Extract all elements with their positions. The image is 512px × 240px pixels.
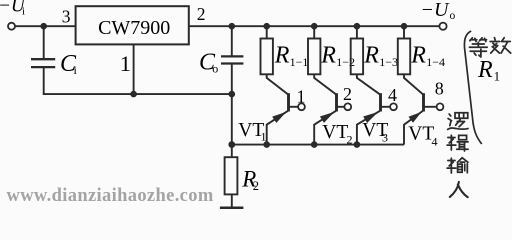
label VT1 <box>238 120 266 144</box>
capacitor Co <box>221 56 243 63</box>
label R1-1 <box>274 42 309 69</box>
label -Ui <box>0 0 26 17</box>
svg-text:1−1: 1−1 <box>290 55 309 69</box>
node VT2 emitter junction <box>311 141 318 148</box>
wire base VT2 <box>337 106 345 108</box>
wire pin 2 / top output rail <box>189 25 440 27</box>
label dengxiao (equivalent) <box>469 38 487 57</box>
arrow emitter VT4 <box>409 112 422 123</box>
label R1 equivalent <box>477 57 500 84</box>
output terminal -U_o <box>439 23 446 30</box>
wire R1-2 top <box>313 26 315 38</box>
wire input to regulator pin 3 <box>15 25 76 27</box>
transistor VT4 base bar <box>422 93 425 111</box>
wire base VT3 <box>381 106 391 108</box>
svg-text:3: 3 <box>62 7 71 27</box>
logic input terminal 1 <box>298 103 305 110</box>
label Ci <box>60 51 78 77</box>
arrow emitter VT2 <box>320 112 334 123</box>
svg-text:R: R <box>363 42 379 68</box>
wire collector VT3 <box>357 74 381 95</box>
svg-text:CW7900: CW7900 <box>98 17 170 39</box>
node R2/emitter rail junction <box>229 141 236 148</box>
svg-text:VT: VT <box>322 122 348 143</box>
transistor VT3 base bar <box>379 93 382 111</box>
arrow emitter VT1 <box>272 112 286 123</box>
wire emitter VT1 <box>267 111 288 145</box>
svg-text:1: 1 <box>261 130 267 144</box>
regulator U1 CW7900 <box>76 6 189 44</box>
node VT3 emitter junction <box>354 141 361 148</box>
svg-text:1: 1 <box>494 69 501 84</box>
logic input terminal 2 <box>344 103 351 110</box>
label R2 <box>241 167 259 193</box>
node R1-1 top junction <box>263 23 270 30</box>
node Ci top junction <box>40 23 47 30</box>
svg-text:3: 3 <box>382 131 388 145</box>
node R1-2 top junction <box>311 23 318 30</box>
wire emitter VT2 <box>314 111 336 145</box>
transistor VT2 base bar <box>335 93 338 111</box>
svg-text:VT: VT <box>408 124 434 145</box>
resistor R2 <box>225 157 238 194</box>
node R1-3 top junction <box>354 23 361 30</box>
transistor VT1 base bar <box>287 93 290 111</box>
svg-text:2: 2 <box>343 84 352 104</box>
label VT2 <box>322 122 352 147</box>
resistor R1-1 <box>261 39 273 75</box>
svg-text:R: R <box>274 42 290 68</box>
svg-text:R: R <box>410 42 426 68</box>
label Co <box>199 49 218 75</box>
svg-text:o: o <box>450 10 456 22</box>
svg-text:1−4: 1−4 <box>426 55 445 69</box>
wire collector VT2 <box>314 74 336 95</box>
node emitter rail left junction <box>229 141 236 148</box>
svg-text:1: 1 <box>297 86 306 106</box>
svg-text:8: 8 <box>435 78 444 98</box>
input terminal -U_i <box>8 23 15 30</box>
node VT1 emitter junction <box>263 141 270 148</box>
svg-text:4: 4 <box>432 135 438 149</box>
svg-text:R: R <box>320 42 336 68</box>
svg-text:2: 2 <box>347 133 353 147</box>
label -Uo <box>421 0 456 22</box>
brace equivalent R1 / logic input <box>464 31 481 144</box>
wire collector VT4 <box>404 74 424 95</box>
svg-text:www.dianziaihaozhe.com: www.dianziaihaozhe.com <box>7 186 214 206</box>
wire Co top <box>231 26 233 55</box>
ground <box>220 207 244 210</box>
svg-text:4: 4 <box>388 85 397 105</box>
wire collector VT1 <box>267 74 289 95</box>
wire R2 top <box>231 94 233 157</box>
wire Ci bottom <box>43 68 45 94</box>
svg-text:−U: −U <box>421 0 450 21</box>
node Co top junction <box>229 23 236 30</box>
wire emitter VT4 <box>404 111 423 145</box>
svg-text:2: 2 <box>253 179 259 193</box>
label R1-2 <box>320 42 355 69</box>
wire Ci top <box>43 26 45 58</box>
wire emitter VT3 <box>357 111 380 145</box>
wire R2 bottom <box>231 194 233 207</box>
wire emitter rail <box>232 144 404 146</box>
wire pin 1 <box>133 44 135 94</box>
resistor R1-2 <box>308 39 320 75</box>
wire R1-3 top <box>356 26 358 38</box>
wire base VT4 <box>424 106 437 108</box>
svg-text:R: R <box>477 57 493 83</box>
label R1-4 <box>410 42 445 69</box>
svg-text:2: 2 <box>197 4 206 24</box>
capacitor Ci <box>31 59 55 67</box>
svg-text:i: i <box>22 5 25 17</box>
wire R1-4 top <box>403 26 405 38</box>
node R1-4 top junction <box>401 23 408 30</box>
svg-text:1−3: 1−3 <box>379 55 398 69</box>
resistor R1-4 <box>398 39 410 75</box>
wire Co bottom <box>231 64 233 94</box>
arrow emitter VT3 <box>363 112 378 123</box>
label VT3 <box>362 120 388 144</box>
label VT4 <box>408 124 437 149</box>
svg-text:1−2: 1−2 <box>336 55 355 69</box>
logic input terminal 8 <box>437 103 444 110</box>
node Co bottom junction <box>229 91 236 98</box>
label R1-3 <box>363 42 398 69</box>
svg-text:o: o <box>212 61 218 75</box>
svg-text:1: 1 <box>120 51 131 76</box>
resistor R1-3 <box>351 39 363 75</box>
logic input terminal 4 <box>390 103 397 110</box>
node pin1 to rail junction <box>130 91 137 98</box>
label luojishuru (logic input) <box>448 113 468 130</box>
wire R1-1 top <box>266 26 268 38</box>
wire bottom rail <box>43 93 232 95</box>
wire base VT1 <box>289 106 299 108</box>
